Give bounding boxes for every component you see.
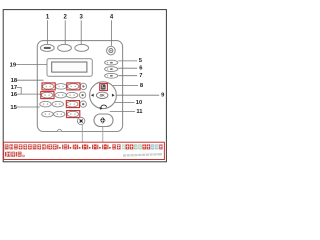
svg-text:16: 16 — [11, 92, 18, 98]
svg-text:10: 10 — [136, 100, 142, 106]
keypad row3 key A — [40, 101, 51, 107]
button 3 — [75, 44, 89, 51]
keypad row3 key C — [67, 101, 78, 107]
right oval button 6 — [105, 67, 118, 72]
control panel body — [37, 41, 122, 132]
keypad row4 key C — [67, 111, 78, 117]
svg-text:11: 11 — [136, 109, 143, 115]
start button (diamond) — [94, 114, 113, 127]
highlight box key# — [67, 111, 80, 118]
keypad row3 key B — [52, 101, 63, 107]
highlight box key4 — [41, 92, 54, 99]
highlight box key3 — [67, 83, 80, 90]
callout 9 leader — [116, 94, 159, 96]
callout 3 leader — [80, 20, 82, 44]
keypad row2 side circle — [79, 92, 85, 98]
keypad row2 key B — [55, 92, 66, 98]
svg-text:OK: OK — [100, 94, 106, 98]
callout 1 leader — [47, 20, 49, 44]
callout 8 leader — [108, 85, 138, 87]
keypad row3 side circle — [80, 101, 86, 107]
keypad row1 side circle — [80, 83, 86, 89]
highlight box key9 — [66, 101, 79, 108]
button 1 (toner) — [40, 44, 54, 51]
outer frame — [3, 10, 166, 162]
button 2 — [58, 44, 72, 51]
callout 19 leader — [16, 64, 47, 66]
stop/cancel X button — [77, 117, 84, 124]
menu button (top of dial) — [101, 84, 106, 89]
callout 6 leader — [118, 67, 137, 69]
arrow key separators — [89, 92, 91, 99]
callout 7 leader — [118, 75, 137, 77]
left arrow key — [91, 94, 94, 97]
LCD display 19 — [47, 59, 92, 77]
svg-text:7: 7 — [139, 73, 142, 79]
keypad row4 key B — [54, 111, 65, 117]
gray watermark text — [123, 153, 162, 157]
leader from X button to note — [81, 125, 83, 142]
right arrow key — [112, 94, 115, 97]
panel bottom tab bump — [58, 129, 62, 131]
navigation dial — [90, 82, 117, 109]
callout 5 leader — [118, 60, 137, 62]
right oval button 5 — [105, 60, 118, 65]
red note box — [4, 142, 165, 159]
power button 4 — [107, 46, 116, 55]
keypad row1 key C — [68, 84, 79, 90]
svg-text:19: 19 — [10, 63, 17, 69]
callout 16 leader — [17, 93, 42, 95]
callout 10 leader — [107, 102, 135, 104]
callout 11 leader — [110, 111, 135, 113]
highlight box menu — [100, 84, 108, 91]
note text line 2 (red cjk) — [5, 152, 24, 157]
back/return key — [101, 105, 107, 109]
note text line 1 (red cjk) — [5, 144, 121, 149]
callout 4 leader — [111, 20, 113, 46]
highlight box key1 — [42, 83, 55, 90]
keypad row2 key C — [66, 92, 77, 98]
OK button — [96, 92, 108, 98]
keypad row4 key A — [42, 111, 53, 117]
keypad row1 key B — [55, 84, 66, 90]
keypad row1 key A — [43, 84, 54, 90]
callout 2 leader — [64, 20, 66, 44]
svg-text:15: 15 — [10, 105, 17, 111]
leader from start button to note — [102, 127, 104, 143]
callout 18 leader — [17, 79, 44, 81]
svg-text:18: 18 — [11, 78, 18, 84]
right oval button 7 — [105, 73, 118, 78]
note text line 1 colored tail — [122, 144, 163, 149]
callout 17 leader — [17, 87, 22, 94]
svg-text:17: 17 — [11, 85, 17, 91]
keypad row2 key A — [41, 92, 52, 98]
callout 15 leader — [16, 106, 40, 108]
